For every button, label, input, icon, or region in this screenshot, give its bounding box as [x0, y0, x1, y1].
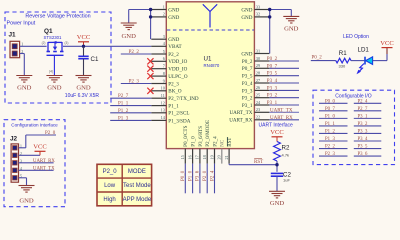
wire stub net P3_4 (configurable io) [354, 140, 382, 142]
svg-text:P2_4: P2_4 [212, 136, 218, 147]
svg-text:P2_3: P2_3 [168, 81, 179, 87]
wire net P1_3 to U1 pin 14 [110, 119, 151, 121]
wire stub net P1_2 (configurable io) [319, 132, 348, 134]
svg-text:13: 13 [161, 108, 165, 113]
svg-text:30: 30 [256, 56, 260, 61]
U1 pin 12 P1_1 (left) [151, 105, 166, 107]
wire net P0_7 from U1 pin 29 [269, 67, 299, 69]
ground (U1 pins 1-3) [121, 23, 137, 30]
wire J2 pin4 UART_TX [19, 169, 54, 171]
svg-text:GND: GND [168, 37, 179, 43]
wire down to ground [128, 10, 130, 24]
svg-text:19: 19 [209, 155, 214, 159]
mode truth table [97, 164, 152, 206]
wire net P2_2 to U1 pin 5 [121, 53, 152, 55]
U1 pin 27 P3_4 (right) [254, 82, 269, 84]
resistor R1 330 [336, 58, 351, 63]
wire J2 pin5 to ground [19, 177, 27, 179]
U1 pin 19 P2_4 (bottom) [214, 149, 216, 164]
svg-text:P0_2: P0_2 [242, 59, 253, 65]
U1 pin 21 RST (bottom) [228, 149, 230, 164]
no-connect X on U1 pin 7 [147, 66, 153, 72]
svg-text:21: 21 [224, 155, 229, 159]
U1 pin 5 P2_2 (left) [151, 53, 166, 55]
wire stub net P1_3 (configurable io) [319, 140, 348, 142]
svg-text:8: 8 [163, 71, 165, 76]
svg-text:P3_6: P3_6 [196, 170, 201, 181]
svg-text:6: 6 [163, 56, 165, 61]
wire J2 pin2 to VCC [19, 154, 41, 156]
svg-text:P1_2: P1_2 [118, 109, 129, 114]
wire stub net P3_3 (configurable io) [354, 132, 382, 134]
svg-text:RST: RST [254, 160, 263, 165]
svg-text:9: 9 [163, 78, 165, 83]
svg-text:P3_5: P3_5 [242, 74, 253, 80]
svg-text:2: 2 [163, 12, 165, 17]
U1 pin 8 ULPC_O (left) [151, 75, 166, 77]
wire J2 pin1 to net P2_0 [19, 147, 26, 149]
antenna symbol inside U1 [203, 4, 217, 27]
svg-text:P2_3: P2_3 [325, 152, 335, 157]
svg-text:GND: GND [122, 33, 137, 40]
ground (J2) [19, 186, 35, 193]
svg-text:J2: J2 [10, 136, 18, 143]
wire net UART_RX from U1 pin 22 [269, 119, 299, 121]
svg-text:UART_TX: UART_TX [229, 110, 252, 116]
wire VBAT rail: Q1 drain to U1 pin4 [63, 45, 151, 47]
node junction pin32 [268, 15, 271, 18]
svg-text:26: 26 [256, 85, 260, 90]
svg-text:LED Option: LED Option [343, 34, 369, 40]
svg-text:GND: GND [241, 7, 252, 13]
U1 pin 9 P2_3 (left) [151, 83, 166, 85]
svg-text:P0_2: P0_2 [267, 57, 278, 62]
ground (U1 pins 33-31) [283, 16, 299, 23]
U1 pin 33 GND (right) [254, 9, 269, 11]
wire stub net P3_2 (configurable io) [354, 125, 382, 127]
svg-text:P0_0: P0_0 [181, 170, 186, 181]
U1 pin 20 NC (bottom) [221, 149, 223, 164]
wire stub net P2_3 (configurable io) [319, 155, 348, 157]
svg-text:P0_0: P0_0 [325, 99, 335, 104]
wire stub net P3_5 (configurable io) [354, 148, 382, 150]
wire stub net P1_0 (configurable io) [319, 117, 348, 119]
wire VBAT rail: J1 pin1 to Q1 source [20, 45, 47, 47]
svg-text:P2_3: P2_3 [129, 80, 140, 85]
svg-text:UART_RX: UART_RX [270, 116, 293, 121]
svg-text:P2_7: P2_7 [358, 107, 368, 112]
svg-text:RST: RST [227, 137, 233, 147]
svg-text:4.7k: 4.7k [282, 153, 290, 158]
svg-text:NC: NC [220, 139, 226, 147]
IC U1 RN4870 module body [166, 2, 254, 149]
wire net P3_2 from U1 pin 25 [269, 97, 299, 99]
U1 pin 18 P2_0/MODE (bottom) [206, 149, 208, 164]
svg-text:29: 29 [256, 63, 260, 68]
power symbol VCC (input section) [78, 41, 89, 43]
capacitor C2 1uF [271, 172, 283, 174]
wire net P3_3 from U1 pin 26 [269, 89, 299, 91]
node VCC/C1 junction on VBAT rail [82, 45, 85, 48]
svg-text:330: 330 [339, 64, 346, 69]
svg-text:P1_0: P1_0 [191, 136, 197, 147]
capacitor C1 10uF [78, 55, 88, 57]
svg-text:APP Mode: APP Mode [123, 197, 152, 203]
svg-text:P1_1: P1_1 [325, 122, 335, 127]
svg-text:ULPC_O: ULPC_O [168, 74, 188, 80]
U1 pin 3 GND (left) [151, 38, 166, 40]
U1 pin 10 BK_O (left) [151, 90, 166, 92]
svg-text:P1_3/SDA: P1_3/SDA [168, 118, 190, 124]
wire net P0_2 from U1 pin 30 [269, 60, 299, 62]
svg-text:P1_1: P1_1 [118, 102, 129, 107]
wire VCC to R2 [276, 137, 278, 142]
wire net P2_4 from U1 pin 19 [214, 164, 216, 194]
power symbol VCC (reset pullup) [272, 136, 283, 138]
svg-text:P3_4: P3_4 [242, 81, 253, 87]
U1 pin 29 P0_7 (right) [254, 67, 269, 69]
svg-text:P3_6/RTS: P3_6/RTS [198, 126, 204, 147]
svg-text:22: 22 [256, 115, 260, 120]
svg-text:UART_RX: UART_RX [229, 118, 253, 124]
ground (C1) [76, 76, 92, 83]
connector J2 (configuration header) [10, 136, 22, 183]
svg-text:P1_1: P1_1 [168, 104, 179, 110]
svg-text:23: 23 [256, 107, 260, 112]
svg-text:P0_7: P0_7 [267, 64, 278, 69]
svg-text:(4): (4) [49, 70, 53, 74]
svg-text:12: 12 [161, 100, 165, 105]
resistor R2 4.7k [274, 142, 281, 162]
svg-text:VCC: VCC [77, 34, 91, 41]
svg-text:U1: U1 [204, 55, 212, 62]
U1 pin 31 GND (right) [254, 53, 269, 55]
U1 pin 22 UART_RX (right) [254, 119, 269, 121]
svg-text:UART_TX: UART_TX [270, 108, 293, 113]
svg-text:P3_4: P3_4 [267, 79, 278, 84]
U1 pin 25 P3_2 (right) [254, 97, 269, 99]
transistor Q1 STS2301 P-MOSFET [42, 28, 69, 73]
svg-text:25: 25 [256, 93, 260, 98]
svg-text:UART_TX: UART_TX [33, 166, 55, 171]
svg-text:C1: C1 [91, 56, 99, 63]
svg-text:33: 33 [256, 4, 260, 9]
svg-text:GND: GND [270, 200, 285, 207]
svg-text:UART Interface: UART Interface [259, 122, 293, 128]
dashed RF section divider inside U1 [167, 29, 254, 31]
svg-text:P3_4: P3_4 [358, 137, 368, 142]
U1 pin 28 P3_5 (right) [254, 75, 269, 77]
svg-text:GND: GND [76, 84, 91, 91]
svg-text:P3_3: P3_3 [242, 88, 253, 94]
node junction pin1 [149, 8, 152, 11]
U1 pin 15 P0_0/CTS (bottom) [184, 149, 186, 164]
svg-text:P3_1: P3_1 [267, 101, 278, 106]
wire C1 to ground [83, 59, 85, 76]
wire C2 to ground [276, 176, 278, 191]
svg-text:VCC: VCC [380, 40, 394, 47]
wire net P2_0 from U1 pin 18 [206, 164, 208, 194]
wire net P3_4 from U1 pin 27 [269, 82, 299, 84]
svg-text:VDD_IO: VDD_IO [168, 67, 187, 73]
svg-text:P0_7: P0_7 [325, 107, 335, 112]
U1 pin 30 P0_2 (right) [254, 60, 269, 62]
svg-text:3: 3 [163, 34, 165, 39]
svg-text:Configuration Interface: Configuration Interface [11, 123, 58, 128]
svg-text:R1: R1 [339, 50, 347, 57]
svg-text:P2_4: P2_4 [358, 99, 368, 104]
svg-text:P3_2: P3_2 [267, 94, 278, 99]
svg-text:P2_4: P2_4 [210, 170, 215, 181]
svg-text:17: 17 [195, 155, 200, 159]
svg-text:P2_2: P2_2 [325, 145, 335, 150]
U1 pin 32 GND (right) [254, 16, 269, 18]
svg-text:P1_3: P1_3 [118, 116, 129, 121]
svg-text:P3_1: P3_1 [242, 103, 253, 109]
wire Q1 gate to ground [53, 55, 55, 75]
wire J2 pin3 UART_RX [19, 162, 54, 164]
U1 pin 11 P2_7/TX_IND (left) [151, 97, 166, 99]
U1 pin 1 GND (left) [151, 9, 166, 11]
U1 pin 14 P1_3/SDA (left) [151, 119, 166, 121]
svg-text:P2_2: P2_2 [168, 52, 179, 58]
svg-text:Power Input: Power Input [7, 21, 36, 27]
svg-text:VDD_IO: VDD_IO [168, 59, 187, 65]
svg-text:P3_5: P3_5 [267, 72, 278, 77]
svg-text:MODE: MODE [128, 169, 146, 175]
wire stub net P2_7 (configurable io) [354, 110, 382, 112]
svg-text:P2_7: P2_7 [118, 94, 129, 99]
wire stub net P0_7 (configurable io) [319, 110, 348, 112]
svg-text:P3_3: P3_3 [358, 129, 368, 134]
wire net P1_2 to U1 pin 13 [110, 112, 151, 114]
wire net P2_7 to U1 pin 11 [110, 97, 151, 99]
Configurable I/O dashed box [313, 90, 395, 164]
svg-text:20: 20 [217, 155, 222, 159]
no-connect X on U1 pin 6 [147, 58, 153, 64]
svg-text:Test Mode: Test Mode [123, 183, 151, 189]
svg-text:UART_RX: UART_RX [33, 159, 55, 164]
svg-text:GND: GND [19, 198, 34, 205]
wire stub net P1_1 (configurable io) [319, 125, 348, 127]
wire P0_2 to R1 [311, 60, 336, 62]
wire net P0_0 from U1 pin 15 [184, 164, 186, 194]
svg-text:R2: R2 [282, 145, 290, 152]
U1 pin 23 UART_TX (right) [254, 111, 269, 113]
svg-text:18: 18 [202, 155, 207, 159]
wire pins1-3 gnd net left [129, 9, 152, 11]
U1 pin 17 P3_6/RTS (bottom) [199, 149, 201, 164]
svg-text:7: 7 [163, 64, 165, 69]
power symbol VCC (led) [382, 47, 393, 49]
svg-text:10uF 6.3V X5R: 10uF 6.3V X5R [65, 93, 100, 99]
svg-text:P3_2: P3_2 [358, 122, 368, 127]
svg-text:LD1: LD1 [358, 47, 370, 54]
svg-text:32: 32 [256, 12, 260, 17]
svg-text:(2): (2) [42, 41, 46, 45]
wire R2 to junction [276, 161, 278, 172]
connector J1 (power input header) [9, 32, 24, 58]
svg-text:P3_5: P3_5 [358, 145, 368, 150]
U1 pin 13 P1_2/SCL (left) [151, 112, 166, 114]
ground (J1) [16, 76, 32, 83]
svg-text:GND: GND [168, 7, 179, 13]
wire stub net P3_6 (configurable io) [354, 155, 382, 157]
U1 pin 6 VDD_IO (left) [151, 60, 166, 62]
svg-text:P0_2: P0_2 [312, 56, 323, 61]
svg-text:15: 15 [180, 155, 185, 159]
no-connect X on U1 pin 10 [147, 88, 153, 94]
svg-text:11: 11 [161, 93, 165, 98]
node junction pin2 [149, 15, 152, 18]
svg-text:P1_0: P1_0 [325, 114, 335, 119]
svg-text:P2_0: P2_0 [103, 169, 118, 175]
wire net UART_TX from U1 pin 23 [269, 111, 299, 113]
svg-text:28: 28 [256, 71, 260, 76]
svg-text:P1_3: P1_3 [325, 137, 335, 142]
svg-text:1: 1 [163, 4, 165, 9]
svg-text:VBAT: VBAT [168, 44, 182, 50]
wire R1 to LD1 [351, 60, 364, 62]
svg-text:(3): (3) [65, 41, 69, 45]
ground (Q1 gate) [46, 76, 62, 83]
svg-text:P2_7/TX_IND: P2_7/TX_IND [168, 96, 199, 102]
svg-text:P0_0/CTS: P0_0/CTS [183, 125, 189, 146]
svg-text:Low: Low [104, 183, 116, 189]
wire stub net P3_1 (configurable io) [354, 117, 382, 119]
wire net P1_0 from U1 pin 16 [192, 164, 194, 194]
svg-text:P2_0: P2_0 [45, 131, 56, 136]
svg-text:P1_0: P1_0 [188, 170, 193, 181]
Reverse Voltage Protection / Power Input dashed box [5, 12, 111, 103]
svg-text:GND: GND [47, 84, 62, 91]
wire VCC to rail [83, 42, 85, 47]
svg-text:GND: GND [17, 84, 32, 91]
wire net P1_1 to U1 pin 12 [110, 105, 151, 107]
wire stub net P0_0 (configurable io) [319, 102, 348, 104]
svg-text:BK_O: BK_O [168, 89, 182, 95]
wire pins33-31 gnd net right [269, 9, 291, 11]
wire J1 pin2 to ground [20, 53, 25, 55]
svg-text:Reverse Voltage Protection: Reverse Voltage Protection [25, 13, 90, 19]
svg-text:STS2301: STS2301 [44, 35, 63, 40]
U1 pin 24 P3_1 (right) [254, 104, 269, 106]
svg-text:16: 16 [187, 155, 192, 159]
wire net P2_3 to U1 pin 9 [121, 83, 152, 85]
node junction pin33 [268, 8, 271, 11]
svg-text:GND: GND [284, 26, 299, 33]
svg-text:VCC: VCC [270, 129, 284, 136]
svg-text:31: 31 [256, 48, 260, 53]
svg-text:P2_0: P2_0 [203, 170, 208, 181]
ground (C2) [269, 191, 285, 198]
svg-text:GND: GND [241, 51, 252, 57]
svg-text:J1: J1 [9, 32, 17, 39]
no-connect X on U1 pin 8 [147, 73, 153, 79]
U1 pin 7 VDD_IO (left) [151, 68, 166, 70]
svg-text:GND: GND [241, 15, 252, 21]
svg-text:High: High [103, 197, 115, 203]
U1 pin 2 GND (left) [151, 16, 166, 18]
svg-text:P3_2: P3_2 [242, 96, 253, 102]
svg-text:P2_0/MODE: P2_0/MODE [205, 120, 211, 147]
RST overbar on pin 21 label [226, 137, 228, 146]
U1 pin 26 P3_3 (right) [254, 89, 269, 91]
power symbol VCC (J2) [35, 150, 46, 152]
wire stub net P2_4 (configurable io) [354, 102, 382, 104]
node RST junction [275, 163, 278, 166]
svg-text:P1_2: P1_2 [325, 129, 335, 134]
svg-text:27: 27 [256, 78, 260, 83]
svg-text:P0_7: P0_7 [242, 66, 253, 72]
svg-text:5: 5 [163, 49, 165, 54]
svg-text:RN4870: RN4870 [204, 63, 220, 68]
wire stub net P2_2 (configurable io) [319, 148, 348, 150]
U1 pin 16 P1_0 (bottom) [192, 149, 194, 164]
wire down to ground [290, 10, 292, 17]
wire RST from U1 pin 21 [228, 164, 230, 165]
svg-text:GND: GND [168, 15, 179, 21]
wire LD1 to VCC [373, 60, 387, 62]
wire net P3_1 from U1 pin 24 [269, 104, 299, 106]
wire junction down to C1 [83, 46, 85, 56]
wire net P3_5 from U1 pin 28 [269, 75, 299, 77]
svg-text:VCC: VCC [33, 144, 47, 151]
svg-text:P3_3: P3_3 [267, 86, 278, 91]
wire net P3_6 from U1 pin 17 [199, 164, 201, 194]
svg-text:P1_2/SCL: P1_2/SCL [168, 111, 189, 117]
svg-text:10: 10 [161, 86, 165, 91]
svg-text:1uF: 1uF [283, 178, 290, 183]
svg-text:P2_2: P2_2 [129, 50, 140, 55]
svg-text:P3_6: P3_6 [358, 152, 368, 157]
svg-text:P3_1: P3_1 [358, 114, 368, 119]
U1 pin 4 VBAT (left) [151, 45, 166, 47]
Configuration Interface dashed box [4, 120, 65, 207]
svg-text:Q1: Q1 [44, 28, 53, 35]
